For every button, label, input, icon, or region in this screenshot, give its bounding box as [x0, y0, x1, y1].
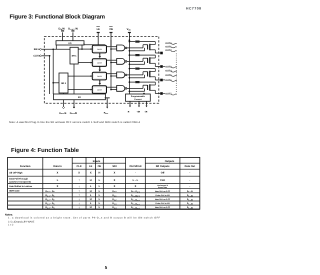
svg-text:CLK: CLK	[77, 165, 82, 168]
latch U3	[91, 72, 107, 80]
wire latch 2 to latch 3	[99, 66, 101, 71]
node OUT4	[165, 70, 176, 73]
programmable current source box	[126, 94, 151, 101]
svg-text:SDI: SDI	[112, 165, 116, 168]
pin LE	[96, 26, 100, 44]
shift register SR2	[59, 73, 68, 93]
function row: SDR shift 3	[46, 201, 194, 206]
pin SDI (left)	[34, 48, 70, 51]
table grid	[8, 157, 200, 209]
svg-text:New CLK on D FF: New CLK on D FF	[155, 206, 171, 209]
svg-text:H: H	[90, 198, 92, 201]
wire row4 sense	[129, 88, 144, 91]
resistor R4 (gate bias)	[129, 81, 155, 83]
wire SDI branch to SR2	[52, 49, 59, 94]
wire gate3 out	[127, 72, 148, 75]
wire OE to gate3	[111, 75, 117, 77]
wire SR1 to latch2	[78, 62, 92, 64]
svg-text:Dn→B: Dn→B	[187, 206, 193, 209]
wire SR2 to bottom box	[63, 93, 65, 94]
svg-text:HC7708: HC7708	[186, 7, 201, 11]
svg-text:Dn-0 – D0: Dn-0 – D0	[46, 190, 55, 193]
wire OE to gate4	[111, 89, 117, 91]
svg-text:OUT4: OUT4	[165, 70, 172, 73]
wire latch3 to gate	[107, 73, 117, 75]
svg-text:OUT2: OUT2	[165, 49, 172, 52]
node OUT5	[165, 74, 176, 77]
svg-text:Figure 3: Functional Block Di: Figure 3: Functional Block Diagram	[10, 13, 106, 20]
svg-text:SR 2: SR 2	[61, 82, 67, 85]
table header	[20, 160, 195, 168]
svg-text:OUT1: OUT1	[165, 45, 172, 48]
svg-text:OUT6: OUT6	[165, 79, 172, 82]
wire latch4 to bottom box	[99, 92, 101, 95]
svg-text:LE: LE	[89, 165, 93, 168]
wire OE rail	[110, 40, 112, 90]
svg-text:Function: Function	[20, 165, 31, 168]
shift register SR1	[70, 47, 78, 64]
wire row4 to output pad	[155, 93, 160, 95]
pin CLK (left)	[33, 55, 50, 58]
node OUT3	[165, 65, 176, 68]
wire LE to latches	[81, 43, 105, 50]
svg-text:Data Fall-Through: Data Fall-Through	[9, 178, 28, 181]
svg-text:All O/P High: All O/P High	[9, 172, 23, 175]
svg-text:OUT7: OUT7	[165, 93, 172, 96]
svg-text:(Latches Transparent): (Latches Transparent)	[9, 181, 31, 184]
svg-text:SB In: SB In	[34, 48, 40, 51]
function row: SDR shift 1	[46, 193, 194, 198]
wire latch 1 to latch 2	[99, 53, 101, 58]
svg-text:Pulse CLK in SR: Pulse CLK in SR	[156, 202, 171, 205]
resistor R2 (gate bias)	[129, 54, 155, 56]
svg-text:Pulse CLK in SR: Pulse CLK in SR	[156, 194, 171, 197]
pin current set	[137, 101, 141, 113]
nand gate G3	[117, 72, 127, 78]
wire prog current to row4	[143, 93, 145, 95]
wire row2 to output pad	[155, 66, 160, 68]
wire SR2 to latch3	[68, 75, 92, 77]
pin VDD	[127, 28, 132, 40]
pin R-gain	[128, 101, 131, 113]
svg-text:-: -	[189, 185, 190, 188]
wire row2 sense	[129, 61, 144, 64]
node OUT2	[165, 49, 176, 52]
svg-text:Data Out: Data Out	[185, 165, 196, 168]
resistor R1 (gate bias)	[129, 41, 155, 43]
function row: SDR shift 4	[46, 205, 194, 210]
latch U4	[91, 86, 107, 94]
wire CLK rail down	[49, 56, 51, 94]
latch U2	[91, 59, 107, 67]
input shift register I/O box	[56, 41, 84, 45]
wire row3 to output pad	[155, 79, 160, 81]
resistor R3 (gate bias)	[129, 68, 155, 70]
node OUT1	[165, 45, 176, 48]
pin Dout S (bottom)	[59, 100, 67, 116]
svg-text:Dn-3 – D3: Dn-3 – D3	[46, 202, 55, 205]
svg-text:H: H	[90, 206, 92, 209]
wire row1 sense	[129, 48, 144, 51]
svg-text:Latch: Latch	[97, 61, 102, 64]
svg-text:Boost Data: Boost Data	[158, 186, 167, 189]
function row: data fall-through	[9, 178, 190, 184]
pin Din/SDI	[59, 28, 65, 41]
pin R-EXT	[104, 97, 110, 114]
pin Dout R (bottom)	[70, 100, 78, 116]
svg-text:Latch: Latch	[97, 75, 102, 78]
wire I/O box left drop	[55, 45, 57, 49]
node OUT0	[165, 42, 176, 45]
svg-text:New CLK on D FF: New CLK on D FF	[155, 190, 171, 193]
output mosfet Q3	[148, 69, 156, 80]
svg-text:L = 2: L = 2	[8, 224, 14, 227]
node output ellipsis	[175, 54, 177, 94]
output pad OUT4	[160, 92, 163, 95]
svg-text:Latch: Latch	[97, 88, 102, 91]
wire OE to gate1	[111, 48, 117, 50]
wire row1 to output pad	[155, 52, 160, 54]
wire gate1 out	[127, 45, 148, 48]
wire latch4 to gate	[107, 86, 117, 88]
nand gate G2	[117, 59, 127, 65]
wire OUT7 pad link	[163, 93, 165, 95]
pin Dout/SDO	[68, 28, 78, 41]
svg-text:Inputs: Inputs	[93, 160, 101, 163]
svg-text:OUT5: OUT5	[165, 74, 172, 77]
wire VDD rail	[129, 39, 131, 94]
svg-text:Data In: Data In	[53, 165, 62, 168]
pin current ref	[144, 101, 147, 113]
svg-text:SR 1: SR 1	[72, 55, 78, 58]
svg-text:H: H	[90, 190, 92, 193]
svg-text:Latch: Latch	[97, 48, 102, 51]
function row: SDR shift 2	[46, 197, 194, 202]
svg-text:I/O: I/O	[78, 96, 81, 99]
wire OUT6 pad link	[163, 79, 165, 81]
function row: data shifted in latches	[9, 184, 190, 189]
svg-text:-: -	[189, 179, 190, 182]
wire OE to gate2	[111, 62, 117, 64]
svg-text:Outputs: Outputs	[165, 160, 175, 163]
wire row3 sense	[129, 75, 144, 78]
function row: SDR shift 0	[9, 189, 193, 194]
svg-text:New CLK on D FF: New CLK on D FF	[155, 198, 171, 201]
svg-text:Figure 4: Function Table: Figure 4: Function Table	[11, 147, 80, 154]
svg-text:-/R: -/R	[144, 111, 147, 114]
node OUT6	[165, 79, 176, 82]
svg-text:Note: A watchful Plug-In line: Note: A watchful Plug-In line the SR act…	[9, 121, 141, 124]
output mosfet Q4	[148, 82, 156, 93]
pin OE	[109, 26, 113, 46]
svg-text:Dn→B: Dn→B	[187, 194, 193, 197]
latch U1	[91, 45, 107, 53]
svg-text:1. a download is colored as a: 1. a download is colored as a bright sta…	[8, 217, 161, 220]
svg-text:Current: Current	[134, 98, 142, 101]
wire latch1 to gate	[107, 46, 117, 48]
output pad OUT3	[160, 79, 163, 82]
nand gate G1	[117, 45, 127, 51]
svg-text:SR Outputs: SR Outputs	[156, 165, 170, 168]
svg-text:Old SR bit: Old SR bit	[129, 165, 141, 168]
svg-text:OUT3: OUT3	[165, 65, 172, 68]
svg-text:Data Shifted in Latches: Data Shifted in Latches	[9, 185, 33, 188]
svg-text:+/R: +/R	[137, 111, 141, 114]
wire OUT3 pad link	[163, 65, 165, 67]
svg-text:L→L: L→L	[133, 179, 139, 182]
svg-text:Programmable: Programmable	[131, 95, 146, 98]
output pad OUT1	[160, 52, 163, 55]
nand gate G4	[117, 86, 127, 92]
wire gate2 out	[127, 58, 148, 61]
svg-text:Off: Off	[161, 172, 165, 175]
svg-text:Dn-4 – D4: Dn-4 – D4	[46, 206, 55, 209]
svg-text:OE: OE	[98, 165, 102, 168]
svg-text:Dn-1 – D1: Dn-1 – D1	[46, 194, 55, 197]
svg-text:I/O: I/O	[69, 42, 72, 45]
output mosfet Q2	[148, 55, 156, 66]
svg-text:H: H	[90, 179, 92, 182]
wire SR2 to latch4	[68, 89, 92, 91]
svg-text:SDR state: SDR state	[9, 190, 20, 193]
svg-text:CLK: CLK	[160, 179, 165, 182]
output mosfet Q1	[148, 42, 156, 53]
function row: all outputs high	[9, 172, 190, 175]
svg-text:OUT0: OUT0	[165, 42, 172, 45]
svg-text:Dn→B: Dn→B	[187, 198, 193, 201]
svg-text:Dn→B: Dn→B	[187, 202, 193, 205]
svg-text:H: H	[98, 172, 100, 175]
output data I/O box (bottom)	[54, 94, 106, 100]
wire SR1 to latch1	[78, 48, 92, 50]
svg-text:LE: LE	[97, 28, 101, 31]
svg-text:Dn-2 – D2: Dn-2 – D2	[46, 198, 55, 201]
dashed IC boundary	[44, 36, 159, 103]
svg-text:OE: OE	[109, 28, 113, 31]
wire gate4 out	[127, 85, 148, 88]
svg-text:Dn→B: Dn→B	[187, 190, 193, 193]
wire SR1 to SR2	[73, 64, 75, 94]
svg-text:-: -	[189, 172, 190, 175]
wire latch 3 to latch 4	[99, 80, 101, 85]
wire latch2 to gate	[107, 59, 117, 61]
node OUT7	[165, 93, 176, 96]
output pad OUT2	[160, 65, 163, 68]
